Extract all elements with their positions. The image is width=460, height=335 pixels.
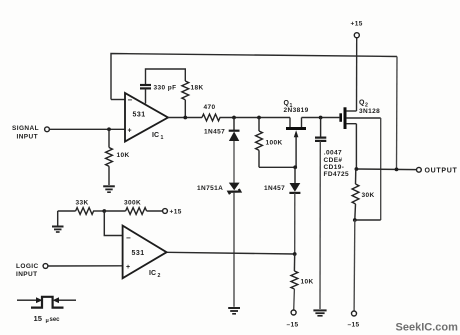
transistor Q1 2N3819 bbox=[284, 100, 309, 167]
svg-text:1: 1 bbox=[161, 135, 164, 141]
node junction output/source bbox=[355, 167, 359, 171]
svg-text:μ: μ bbox=[46, 318, 49, 324]
op-amp IC1 bbox=[125, 93, 168, 142]
node OUTPUT terminal bbox=[417, 167, 458, 174]
svg-text:–15: –15 bbox=[287, 322, 299, 329]
wire logic input to IC2 + bbox=[48, 265, 123, 267]
capacitor 330 pF bbox=[140, 85, 177, 104]
node LOGIC INPUT terminal bbox=[16, 263, 48, 278]
svg-text:sec: sec bbox=[50, 317, 61, 323]
ground (zener) bbox=[228, 308, 240, 314]
svg-text:1N457: 1N457 bbox=[204, 128, 225, 135]
svg-text:+15: +15 bbox=[170, 209, 182, 216]
wire IC1 output bbox=[168, 117, 202, 119]
resistor 30K bbox=[352, 169, 375, 220]
svg-text:−: − bbox=[128, 95, 133, 104]
resistor 18K bbox=[182, 81, 204, 118]
svg-text:330 pF: 330 pF bbox=[154, 85, 177, 92]
wire 30K bottom to substrate bbox=[355, 219, 381, 221]
wire from main line to Q2 gate bbox=[302, 117, 340, 119]
svg-text:SeekIC.com: SeekIC.com bbox=[396, 322, 459, 334]
svg-text:18K: 18K bbox=[191, 85, 204, 92]
node junction signal/10K bbox=[107, 127, 111, 131]
wire divider to IC2 inverting input bbox=[104, 211, 122, 236]
ground (33K) bbox=[52, 211, 64, 232]
node -15 terminal (left) bbox=[287, 310, 299, 329]
ground (10K input) bbox=[103, 186, 115, 192]
ground (0047 cap) bbox=[313, 310, 326, 315]
transistor Q2 3N128 bbox=[341, 100, 381, 129]
svg-text:10K: 10K bbox=[117, 152, 130, 159]
svg-text:2: 2 bbox=[158, 273, 161, 279]
wire IC1 inverting input stub bbox=[111, 99, 125, 101]
diode zener 1N751A bbox=[197, 183, 240, 307]
node +15 terminal (divider) bbox=[163, 209, 182, 216]
svg-text:CD19-: CD19- bbox=[324, 164, 345, 171]
node junction divider bbox=[102, 209, 106, 213]
resistor 470 bbox=[202, 104, 220, 121]
resistor 10K (to -15) bbox=[291, 254, 314, 310]
svg-text:CDE#: CDE# bbox=[324, 157, 343, 164]
svg-text:+: + bbox=[128, 127, 132, 134]
svg-text:1N751A: 1N751A bbox=[197, 185, 223, 192]
svg-text:531: 531 bbox=[133, 112, 146, 119]
node junction IC2out/diode/10K bbox=[293, 252, 297, 256]
svg-text:3N128: 3N128 bbox=[359, 108, 380, 115]
node junction output/feedback bbox=[395, 168, 399, 172]
wire feedback box top bbox=[146, 69, 186, 85]
node +15 terminal (top) bbox=[351, 20, 363, 111]
svg-text:300K: 300K bbox=[124, 200, 141, 207]
svg-text:+: + bbox=[126, 264, 130, 271]
diode 1N457 (first) bbox=[204, 118, 240, 183]
svg-text:.0047: .0047 bbox=[324, 150, 342, 157]
svg-text:IC: IC bbox=[149, 270, 156, 277]
svg-text:1N457: 1N457 bbox=[264, 185, 285, 192]
svg-text:2N3819: 2N3819 bbox=[284, 107, 309, 114]
svg-text:+15: +15 bbox=[351, 20, 363, 27]
node junction gate/100K/diode bbox=[293, 165, 297, 169]
pulse waveform symbol bbox=[17, 297, 76, 324]
capacitor 0047 bbox=[315, 118, 349, 310]
resistor 100K bbox=[256, 118, 283, 168]
svg-text:33K: 33K bbox=[76, 200, 89, 207]
resistor 300K bbox=[104, 200, 162, 215]
resistor 10K (input) bbox=[106, 129, 130, 185]
svg-text:OUTPUT: OUTPUT bbox=[425, 168, 458, 175]
wire 100K to gate node bbox=[259, 166, 295, 168]
svg-text:−: − bbox=[126, 233, 131, 242]
wire Q2 source to output node bbox=[355, 124, 357, 169]
svg-text:INPUT: INPUT bbox=[16, 271, 38, 278]
svg-text:–15: –15 bbox=[348, 322, 360, 329]
wire output line bbox=[356, 168, 416, 171]
svg-text:INPUT: INPUT bbox=[17, 134, 39, 141]
node junction 18K/output bbox=[183, 116, 187, 120]
op-amp IC2 bbox=[123, 226, 167, 279]
node -15 terminal (right) bbox=[348, 220, 360, 329]
svg-text:100K: 100K bbox=[266, 139, 283, 146]
node junction cap/gate bbox=[319, 116, 323, 120]
svg-text:SIGNAL: SIGNAL bbox=[12, 125, 39, 132]
wire 470 to Q1 bbox=[220, 117, 291, 119]
svg-text:531: 531 bbox=[132, 250, 145, 257]
node SIGNAL INPUT terminal bbox=[12, 125, 49, 140]
node A junction diode bbox=[232, 116, 236, 120]
resistor 33K bbox=[58, 200, 105, 215]
wire signal input to IC1 + bbox=[50, 128, 126, 130]
node junction 100K bbox=[257, 116, 261, 120]
svg-text:470: 470 bbox=[204, 104, 216, 111]
svg-text:LOGIC: LOGIC bbox=[16, 263, 39, 270]
diode 1N457 (second) bbox=[264, 167, 300, 254]
wire IC2 output line bbox=[167, 252, 295, 254]
svg-text:IC: IC bbox=[152, 132, 159, 139]
wire Q2 substrate down bbox=[380, 118, 382, 220]
svg-text:10K: 10K bbox=[301, 279, 314, 286]
wire top feedback loop bbox=[111, 54, 397, 170]
node junction 30K/-15 bbox=[353, 218, 357, 222]
svg-text:30K: 30K bbox=[362, 192, 375, 199]
svg-text:FD4725: FD4725 bbox=[324, 171, 350, 178]
svg-text:15: 15 bbox=[34, 314, 43, 323]
